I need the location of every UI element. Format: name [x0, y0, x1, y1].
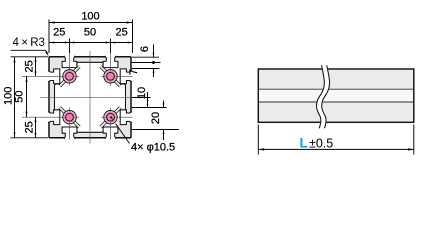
- svg-text:25: 25: [23, 60, 35, 72]
- extrusion cross-section body: [49, 57, 131, 138]
- svg-text:±0.5: ±0.5: [309, 136, 333, 150]
- hole boss 4: [104, 111, 117, 124]
- break line left: [316, 65, 324, 128]
- hole cavity ring 4: [99, 106, 121, 128]
- webs at hole 3: [101, 67, 111, 77]
- T-slot cutout 8: [120, 110, 132, 125]
- svg-text:50: 50: [13, 90, 25, 102]
- dim 20 line: [163, 101, 165, 141]
- hole bottom-left (pink highlight + phi10.5 circle): [64, 112, 75, 123]
- side view bar body: [258, 69, 414, 122]
- T-slot cutout 7: [48, 110, 60, 125]
- svg-text:25: 25: [53, 26, 65, 38]
- hole boss 3: [104, 70, 117, 83]
- T-slot cutout 5: [48, 69, 60, 84]
- hole crosshair bottom-right: [101, 108, 133, 140]
- right extension lines 6/7: [132, 57, 161, 68]
- right extension lines 10/20: [132, 98, 179, 130]
- dim 100 top extension lines: [49, 20, 133, 54]
- dim 6/7 junction dot: [152, 61, 155, 64]
- svg-text:6: 6: [139, 46, 151, 52]
- dim 25/50/25 line: [49, 42, 133, 44]
- webs at hole 2: [70, 117, 80, 127]
- hole boss 2: [63, 111, 76, 124]
- webs at hole 1: [70, 67, 80, 77]
- dim L extension lines: [258, 125, 414, 155]
- dim 25 upper-left line: [35, 57, 37, 77]
- dim L line: [258, 148, 414, 150]
- hole crosshair bottom-left: [22, 108, 79, 140]
- svg-text:10: 10: [136, 87, 148, 99]
- svg-text:4× φ10.5: 4× φ10.5: [131, 142, 175, 154]
- dim 25/50/25 extension lines: [70, 39, 111, 54]
- side view middle band: [259, 89, 413, 102]
- dim 50 left line: [26, 76, 28, 117]
- hole cavity ring 3: [99, 65, 121, 87]
- svg-text:4 × R3: 4 × R3: [13, 37, 45, 49]
- hole top-right (pink highlight + phi10.5 circle): [105, 71, 116, 82]
- svg-text:7: 7: [128, 69, 140, 75]
- hole cavity ring 2: [58, 106, 80, 128]
- svg-text:20: 20: [150, 112, 162, 124]
- hole top-left (pink highlight + phi10.5 circle): [64, 71, 75, 82]
- hole bottom-right (pink highlight + phi10.5 circle): [105, 112, 116, 123]
- svg-text:50: 50: [84, 26, 96, 38]
- hole crosshair top-left: [22, 54, 79, 86]
- hole crosshair top-right: [101, 54, 133, 86]
- dim 100 top line: [49, 22, 133, 24]
- central plus-shaped hollow: [55, 62, 126, 132]
- T-slot cutout 1: [62, 56, 77, 68]
- svg-text:L: L: [300, 135, 308, 150]
- webs at hole 4: [101, 117, 111, 127]
- break gap: [317, 65, 330, 128]
- T-slot cutout 6: [120, 69, 132, 84]
- svg-text:25: 25: [23, 121, 35, 133]
- left extension lines: [11, 57, 49, 138]
- leader 4xR3: [11, 50, 48, 53]
- centerlines: [40, 51, 137, 144]
- hole boss 1: [63, 70, 76, 83]
- dim 25 lower-left line: [35, 117, 37, 138]
- dim 6 and 7 chained line: [153, 45, 155, 78]
- break line right: [322, 65, 330, 128]
- T-slot cutout 3: [103, 56, 118, 68]
- T-slot cutout 4: [103, 127, 118, 139]
- svg-text:25: 25: [115, 26, 127, 38]
- side view groove lines: [259, 89, 413, 102]
- svg-text:100: 100: [81, 11, 99, 23]
- leader 4x-phi10.5: [116, 124, 130, 144]
- T-slot cutout 2: [62, 127, 77, 139]
- dim 10 line: [147, 92, 149, 108]
- dim 100 left line: [14, 57, 16, 138]
- hole cavity ring 1: [58, 65, 80, 87]
